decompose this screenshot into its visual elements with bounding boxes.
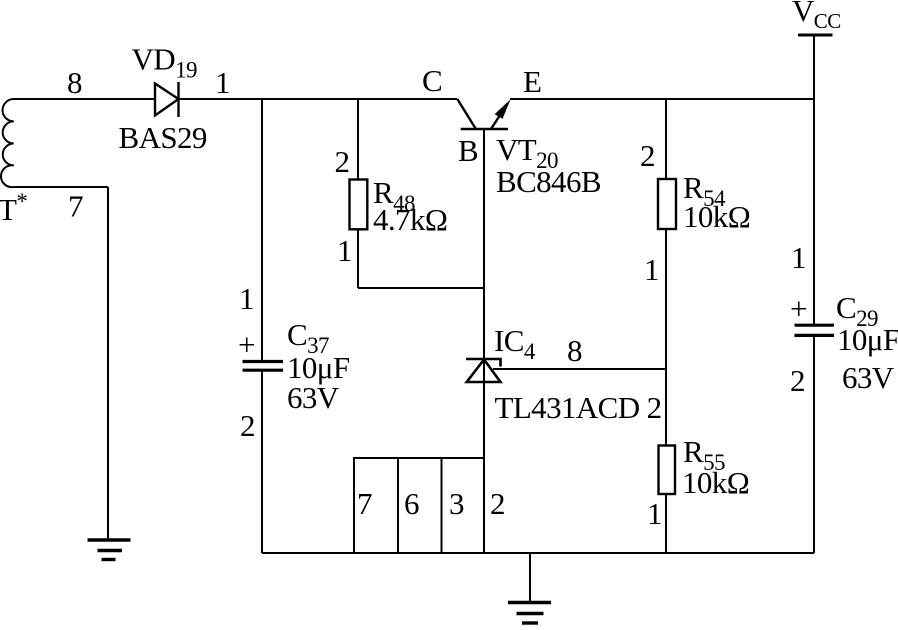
svg-text:B: B bbox=[458, 133, 478, 168]
svg-text:7: 7 bbox=[357, 486, 372, 521]
diode VD19 bbox=[155, 82, 179, 117]
wire R48 to base bbox=[358, 287, 484, 289]
svg-text:2: 2 bbox=[790, 363, 805, 398]
svg-text:2: 2 bbox=[640, 138, 655, 173]
IC4 TL431 symbol bbox=[466, 359, 501, 382]
svg-text:1: 1 bbox=[644, 252, 659, 287]
svg-text:BC846B: BC846B bbox=[496, 164, 601, 199]
svg-text:10kΩ: 10kΩ bbox=[683, 199, 750, 234]
svg-text:3: 3 bbox=[449, 486, 464, 521]
svg-text:2: 2 bbox=[490, 486, 505, 521]
wire C37 branch vertical (bottom) bbox=[261, 370, 263, 553]
svg-text:1: 1 bbox=[337, 233, 352, 268]
capacitor C29 bbox=[795, 325, 835, 335]
svg-text:8: 8 bbox=[67, 65, 82, 100]
wire R55 bottom bbox=[665, 494, 667, 553]
svg-text:1: 1 bbox=[239, 281, 254, 316]
wire R54 top bbox=[665, 99, 667, 179]
svg-text:+: + bbox=[238, 327, 255, 362]
resistor R54 bbox=[658, 179, 676, 229]
wire R54 bottom to R55 bbox=[665, 229, 667, 446]
wire top rail (transistor E to Vcc) bbox=[510, 98, 814, 100]
svg-text:C: C bbox=[422, 63, 442, 98]
svg-text:10kΩ: 10kΩ bbox=[682, 465, 749, 500]
ground (mid) bbox=[508, 603, 551, 624]
wire top rail left (pin8 to diode) bbox=[13, 98, 155, 100]
svg-text:1: 1 bbox=[215, 65, 230, 100]
svg-text:10μF: 10μF bbox=[837, 322, 898, 357]
svg-text:6: 6 bbox=[404, 486, 419, 521]
svg-text:63V: 63V bbox=[842, 360, 895, 395]
svg-text:TL431ACD 2: TL431ACD 2 bbox=[495, 390, 662, 425]
ground (left) bbox=[88, 540, 131, 560]
transistor VT20 bbox=[457, 99, 508, 129]
svg-text:8: 8 bbox=[567, 333, 582, 368]
svg-text:E: E bbox=[523, 64, 541, 99]
svg-text:4.7kΩ: 4.7kΩ bbox=[373, 202, 447, 237]
wire R48 top bbox=[357, 99, 359, 180]
wire Vcc vertical bbox=[813, 35, 815, 325]
svg-text:2: 2 bbox=[335, 144, 350, 179]
capacitor C37 bbox=[243, 362, 284, 371]
wire C37 branch vertical (top) bbox=[261, 99, 263, 362]
wire C29 bottom bbox=[813, 335, 815, 553]
svg-text:+: + bbox=[790, 291, 807, 326]
wire ground stem (mid) bbox=[529, 553, 531, 603]
svg-text:2: 2 bbox=[240, 408, 255, 443]
resistor R55 bbox=[659, 446, 676, 495]
svg-text:1: 1 bbox=[647, 496, 662, 531]
wire top rail (diode to transistor C) bbox=[179, 98, 458, 100]
wire R48 bottom bbox=[357, 229, 359, 288]
wire bottom rail bbox=[262, 552, 814, 554]
transformer T* winding bbox=[1, 99, 14, 187]
wire pin7 vertical to ground bbox=[107, 187, 109, 540]
resistor R48 bbox=[350, 180, 368, 230]
svg-text:BAS29: BAS29 bbox=[119, 120, 207, 155]
Vcc symbol bbox=[798, 34, 833, 37]
wire pin7 horizontal bbox=[14, 186, 108, 188]
connector box pins 7 6 3 bbox=[354, 458, 484, 553]
svg-text:7: 7 bbox=[68, 189, 83, 224]
wire base vertical bbox=[483, 129, 485, 553]
svg-text:1: 1 bbox=[791, 240, 806, 275]
wire ref pin 8 bbox=[493, 368, 666, 370]
svg-text:63V: 63V bbox=[287, 380, 340, 415]
